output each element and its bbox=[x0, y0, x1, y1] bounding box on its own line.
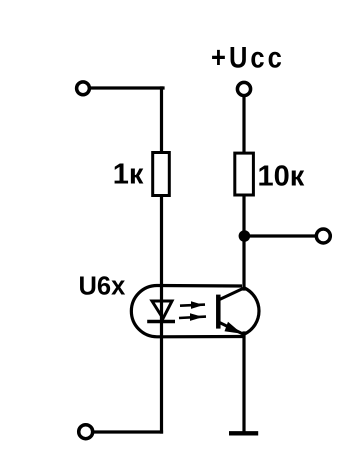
svg-text:+Ucc: +Ucc bbox=[211, 41, 285, 74]
svg-text:10к: 10к bbox=[258, 160, 305, 192]
svg-text:U6х: U6х bbox=[79, 272, 126, 300]
svg-text:1к: 1к bbox=[113, 158, 144, 190]
